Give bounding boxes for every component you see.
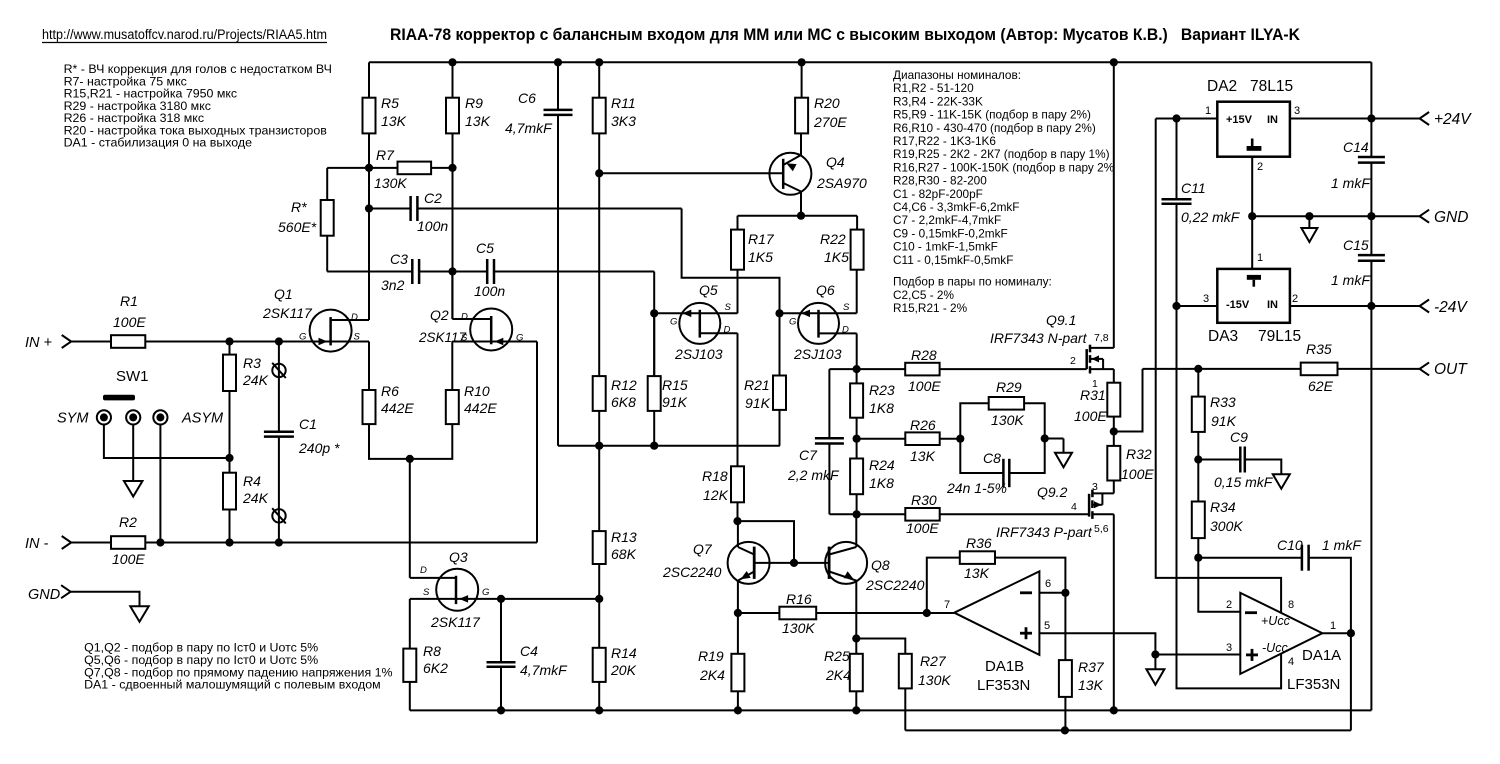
svg-text:13K: 13K <box>1078 677 1104 693</box>
wire R3/R4 column <box>229 342 231 355</box>
wire pin5 node ground stub <box>1154 655 1156 670</box>
node R37 bottom <box>1061 726 1069 734</box>
svg-text:6K2: 6K2 <box>423 660 448 676</box>
svg-text:R22: R22 <box>820 231 846 247</box>
resistor R25 <box>850 654 863 692</box>
ground arrow at pin5 node <box>1146 669 1164 685</box>
svg-text:R14: R14 <box>611 645 637 661</box>
svg-text:D: D <box>351 312 358 323</box>
resistor R14 <box>593 648 606 682</box>
wire C9 branch <box>1198 459 1240 461</box>
resistor R15 <box>648 376 661 411</box>
svg-text:-24V: -24V <box>1434 299 1468 316</box>
svg-text:-Ucc: -Ucc <box>1262 641 1288 655</box>
svg-text:IRF7343 N-part: IRF7343 N-part <box>990 330 1088 346</box>
svg-text:R27: R27 <box>920 653 947 669</box>
svg-text:68K: 68K <box>611 546 637 562</box>
resistor R7 <box>369 167 398 169</box>
svg-text:24K: 24K <box>242 490 269 506</box>
capacitor C10 <box>1301 545 1304 571</box>
svg-text:R17,R22 - 1K3-1K6: R17,R22 - 1K3-1K6 <box>893 134 996 148</box>
svg-text:5,6: 5,6 <box>1094 523 1109 535</box>
svg-text:R21: R21 <box>744 377 770 393</box>
resistor R24 <box>850 459 863 495</box>
wire DA3 pin1 to GND line <box>1251 216 1253 269</box>
svg-text:13K: 13K <box>910 448 936 464</box>
transistor Q7 2SC2240 <box>728 542 770 584</box>
wire C3-C5 <box>419 271 487 273</box>
wire to DA1A pin3 <box>1155 654 1240 656</box>
wire feedback line to DA1A output <box>905 729 1351 731</box>
svg-text:G: G <box>789 317 796 328</box>
wire IN+ line <box>71 341 111 343</box>
wire to base line <box>738 521 795 563</box>
svg-text:270E: 270E <box>813 114 847 130</box>
svg-text:R4: R4 <box>243 473 261 489</box>
capacitor C5 <box>486 259 489 284</box>
wire Q9.2 drain to bottom rail <box>1113 514 1115 710</box>
svg-text:2SJ103: 2SJ103 <box>793 346 842 362</box>
svg-text:2: 2 <box>1292 293 1298 305</box>
op-amp DA1A LF353N <box>1240 593 1322 674</box>
wire OUT line <box>1143 368 1301 370</box>
node pin5/pin3/ground <box>1151 650 1159 658</box>
node GND arrow tap <box>1305 212 1313 220</box>
wire R17 lead <box>737 216 739 230</box>
wire DA2 pin1 line <box>1156 118 1218 120</box>
resistor R20 <box>795 98 808 134</box>
transistor Q9.1 IRF7343 N-part <box>1085 349 1088 369</box>
svg-text:5: 5 <box>1044 620 1050 632</box>
wire R34 leads <box>1197 460 1199 502</box>
svg-text:R11: R11 <box>611 95 636 111</box>
resistor R16 <box>779 607 816 620</box>
wire R37 leads <box>1064 593 1066 660</box>
capacitor C14 <box>1358 156 1385 159</box>
wire Q6 source to R22 <box>819 312 857 314</box>
node rail/R19 <box>734 706 742 714</box>
svg-text:C14: C14 <box>1343 139 1369 155</box>
svg-text:GND: GND <box>28 587 60 603</box>
svg-text:C11 - 0,15mkF-0,5mkF: C11 - 0,15mkF-0,5mkF <box>893 253 1013 267</box>
node output R31/R32 <box>1110 427 1118 435</box>
svg-text:7,8: 7,8 <box>1094 332 1109 344</box>
wire R19 leads <box>737 613 739 654</box>
svg-text:2SK117: 2SK117 <box>418 330 467 345</box>
resistor R10 <box>446 390 459 424</box>
svg-text:91K: 91K <box>1211 413 1237 429</box>
svg-text:2SK117: 2SK117 <box>430 614 481 630</box>
svg-text:100E: 100E <box>906 520 939 536</box>
svg-text:300K: 300K <box>1210 518 1243 534</box>
node Q4 collector <box>797 212 805 220</box>
svg-text:2SJ103: 2SJ103 <box>674 346 723 362</box>
resistor R28 <box>905 363 939 376</box>
transistor Q4 2SA970 <box>800 133 802 155</box>
wire R26 line <box>857 438 906 440</box>
resistor R32 <box>1107 446 1120 481</box>
svg-text:C2: C2 <box>424 190 442 206</box>
wire Q3 drain column <box>409 459 411 578</box>
svg-text:62E: 62E <box>1308 378 1334 394</box>
svg-text:13K: 13K <box>964 565 990 581</box>
ground arrow at R29/C8 <box>1055 453 1072 468</box>
wire R21 to tail <box>779 410 781 446</box>
resistor R26 <box>905 432 939 445</box>
node rail/C6 <box>554 58 562 66</box>
svg-text:Q3: Q3 <box>449 549 468 565</box>
svg-text:4: 4 <box>1288 656 1294 668</box>
wire GND line <box>1252 215 1419 217</box>
connector GND <box>1420 210 1430 223</box>
svg-text:http://www.musatoffcv.narod.ru: http://www.musatoffcv.narod.ru/Projects/… <box>42 27 327 42</box>
svg-text:R35: R35 <box>1306 341 1332 357</box>
svg-text:R36: R36 <box>966 535 992 551</box>
svg-text:R34: R34 <box>1210 499 1236 515</box>
switch SW1 pin ASYM <box>153 410 167 424</box>
svg-text:R13: R13 <box>611 529 637 545</box>
node GND/C14 <box>1367 212 1375 220</box>
svg-text:IRF7343 P-part: IRF7343 P-part <box>996 524 1093 540</box>
node R3/R4 <box>225 454 233 462</box>
svg-text:G: G <box>670 317 677 328</box>
wire R18 bottom to Q7 collector <box>737 502 739 521</box>
svg-text:SYM: SYM <box>57 411 89 427</box>
resistor R1 <box>111 335 145 348</box>
wire Q3 source to R8 <box>410 598 456 600</box>
wire R32 leads <box>1113 432 1115 446</box>
node pin6/R36/R37 <box>1061 589 1069 597</box>
wire DA2 pin3 line <box>1290 118 1420 120</box>
wire R13-R14 <box>598 564 600 648</box>
svg-text:G: G <box>299 332 306 343</box>
node C9 <box>1194 455 1202 463</box>
wire R28 line to Q9.1 gate <box>857 368 906 370</box>
svg-text:130K: 130K <box>782 620 815 636</box>
svg-text:1: 1 <box>1205 105 1211 117</box>
svg-text:91K: 91K <box>745 395 771 411</box>
wire DA2 pin2 to GND line <box>1251 157 1253 217</box>
wire Q9.1 source to R31 <box>1113 369 1115 383</box>
wire DA1A output <box>1322 632 1351 634</box>
svg-text:LF353N: LF353N <box>977 677 1030 694</box>
resistor R19 <box>731 654 744 692</box>
svg-text:4,7mkF: 4,7mkF <box>505 120 553 136</box>
wire C8 loop <box>960 439 1003 473</box>
resistor R31 <box>1107 383 1120 417</box>
wire R* branch <box>327 167 369 169</box>
wire C10 line <box>1198 557 1302 559</box>
svg-text:78L15: 78L15 <box>1250 78 1293 95</box>
svg-text:R16,R27 - 100K-150K (подбор в: R16,R27 - 100K-150K (подбор в пару 2% <box>893 160 1115 174</box>
svg-text:R5: R5 <box>381 95 399 111</box>
wire GND stub <box>71 592 140 607</box>
svg-text:GND: GND <box>1434 209 1468 226</box>
wire Q6 drain down <box>819 332 857 334</box>
resistor R* <box>321 200 334 236</box>
wire GND arrow stub <box>1308 216 1310 228</box>
wire R5 column <box>368 62 370 97</box>
svg-text:100n: 100n <box>417 218 448 234</box>
svg-text:R15,R21 - 2%: R15,R21 - 2% <box>893 301 968 315</box>
resistor R33 <box>1192 397 1205 432</box>
wire -15V to DA1A pin4 <box>1177 306 1282 688</box>
svg-text:S: S <box>725 302 732 313</box>
svg-text:24n 1-5%: 24n 1-5% <box>946 480 1007 496</box>
svg-text:Q4: Q4 <box>826 154 845 170</box>
svg-text:R28: R28 <box>911 347 937 363</box>
wire +15V to DA1A pin8 <box>1156 119 1281 613</box>
svg-text:DA1 - сдвоенный малошумящий с: DA1 - сдвоенный малошумящий с полевым вх… <box>84 678 381 692</box>
svg-text:R33: R33 <box>1210 394 1236 410</box>
resistor R18 <box>731 466 744 502</box>
node R18/Q7 collector <box>733 517 741 525</box>
resistor R23 <box>850 383 863 417</box>
resistor R30 <box>905 508 939 521</box>
svg-text:R1: R1 <box>120 293 138 309</box>
svg-text:100E: 100E <box>113 314 146 330</box>
svg-text:R2: R2 <box>119 514 137 530</box>
node OUT/R33 <box>1194 365 1202 373</box>
svg-text:130K: 130K <box>918 672 951 688</box>
svg-text:1: 1 <box>1330 620 1336 632</box>
node tail/R12 <box>595 442 603 450</box>
node R29/C8 left <box>956 435 964 443</box>
node rail/R25 <box>852 706 860 714</box>
svg-text:1 mkF: 1 mkF <box>1331 175 1371 191</box>
svg-text:SW1: SW1 <box>116 368 149 385</box>
svg-text:C7 - 2,2mkF-4,7mkF: C7 - 2,2mkF-4,7mkF <box>893 213 1001 227</box>
svg-text:1 mkF: 1 mkF <box>1322 537 1362 553</box>
svg-text:DA1B: DA1B <box>985 658 1024 675</box>
svg-text:6: 6 <box>1045 578 1051 590</box>
wire R14 to bottom rail <box>598 682 600 711</box>
svg-text:ASYM: ASYM <box>181 411 224 427</box>
node tail/R15 <box>650 442 658 450</box>
node DA1A out / C10 / feedback <box>1347 629 1355 637</box>
wire R23-R24 <box>856 418 858 439</box>
node R6/R10 junction <box>406 455 414 463</box>
wire to ground arrow <box>1045 438 1064 440</box>
capacitor C11 <box>1162 198 1192 201</box>
wire R23 lead <box>856 369 858 383</box>
svg-text:R18: R18 <box>702 468 728 484</box>
svg-text:R3,R4 - 22K-33K: R3,R4 - 22K-33K <box>893 94 983 108</box>
svg-text:7: 7 <box>944 599 950 611</box>
svg-text:2SC2240: 2SC2240 <box>865 577 925 593</box>
svg-text:R5,R9 - 11K-15K (подбор в пару: R5,R9 - 11K-15K (подбор в пару 2%) <box>893 108 1091 122</box>
svg-text:100n: 100n <box>474 283 505 299</box>
svg-text:3: 3 <box>1294 105 1300 117</box>
wire DA1B pin6 <box>1039 592 1065 594</box>
resistor R8 <box>403 649 416 682</box>
wire Q2 source to R10 <box>452 341 491 343</box>
svg-text:24K: 24K <box>242 372 269 388</box>
wire R27 branch <box>856 639 905 654</box>
svg-text:R24: R24 <box>869 457 895 473</box>
svg-text:2: 2 <box>1257 161 1263 173</box>
wire R29 loop <box>960 403 988 438</box>
wire R15 column <box>653 313 655 376</box>
svg-text:R29: R29 <box>996 379 1022 395</box>
node R29/C8 right <box>1041 434 1049 442</box>
svg-text:13K: 13K <box>381 113 407 129</box>
transistor Q5 2SJ103 <box>679 303 720 344</box>
svg-text:8: 8 <box>1288 599 1294 611</box>
svg-text:D: D <box>420 565 427 576</box>
node IN- / C1 <box>275 538 283 546</box>
node R26 junction <box>853 435 861 443</box>
node Q6 drain junction <box>853 365 861 373</box>
resistor R6 <box>363 390 376 424</box>
svg-text:R30: R30 <box>911 492 937 508</box>
wire DA3 pin3 line <box>1177 305 1218 307</box>
svg-text:C6: C6 <box>518 90 536 106</box>
svg-text:C4,C6 - 3,3mkF-6,2mkF: C4,C6 - 3,3mkF-6,2mkF <box>893 200 1020 214</box>
wire C5 to Q5 gate <box>494 271 654 273</box>
svg-text:R16: R16 <box>786 591 812 607</box>
capacitor C2 <box>409 196 412 221</box>
ground arrow at C9 <box>1273 474 1290 489</box>
wire DA3 pin2 line <box>1290 305 1420 307</box>
resistor R4 <box>223 473 236 510</box>
wire output node to OUT line <box>1114 369 1143 432</box>
wire C7 bottom lead <box>828 444 830 515</box>
node rail/Q9.2 <box>1110 706 1118 714</box>
svg-text:DA1 - стабилизация 0 на выходе: DA1 - стабилизация 0 на выходе <box>64 136 253 150</box>
wire DA1B pin5 line <box>1039 633 1155 654</box>
wire SYM pin to R3/R4 node <box>104 425 230 459</box>
node rail/C4 <box>497 706 505 714</box>
wire R36 loop <box>995 558 1065 593</box>
svg-text:R19: R19 <box>698 648 724 664</box>
regulator DA2 78L15 <box>1217 102 1290 157</box>
svg-text:R17: R17 <box>748 231 775 247</box>
node -24V <box>1367 302 1375 310</box>
svg-text:Q8: Q8 <box>871 557 890 573</box>
wire R17 to Q5 source <box>737 270 739 314</box>
svg-text:91K: 91K <box>662 394 688 410</box>
svg-text:R15: R15 <box>662 377 688 393</box>
wire Q3 gate line <box>456 598 599 600</box>
svg-text:3: 3 <box>1203 293 1209 305</box>
svg-text:R10: R10 <box>464 383 490 399</box>
wire C11 column <box>1176 119 1178 200</box>
node rail/R14 <box>595 706 603 714</box>
svg-text:79L15: 79L15 <box>1258 328 1301 345</box>
node DA2 pin1 / C11 <box>1172 114 1180 122</box>
svg-text:IN +: IN + <box>25 335 52 351</box>
svg-text:IN -: IN - <box>25 536 49 552</box>
connector +24V <box>1420 112 1430 125</box>
svg-text:R12: R12 <box>611 377 637 393</box>
svg-text:1K5: 1K5 <box>824 249 849 265</box>
svg-text:100E: 100E <box>1074 408 1107 424</box>
svg-text:2: 2 <box>1070 355 1076 367</box>
regulator DA3 79L15 <box>1217 269 1290 323</box>
wire R30 line to Q9.2 gate <box>857 513 906 515</box>
wire R20 column <box>801 62 803 97</box>
wire R33-C9 node <box>1197 432 1199 460</box>
svg-text:C1: C1 <box>299 416 317 432</box>
wire Q9.1 drain column <box>1113 62 1115 348</box>
svg-text:R3: R3 <box>243 355 261 371</box>
node C10 <box>1194 554 1202 562</box>
wire DA1B output <box>927 612 955 614</box>
capacitor C6 <box>544 109 573 112</box>
resistor R3 <box>223 355 236 391</box>
svg-text:DA1A: DA1A <box>1302 647 1341 664</box>
wire DA1A pin2 line <box>1198 558 1240 612</box>
svg-text:C5: C5 <box>476 240 494 256</box>
svg-text:100E: 100E <box>1121 466 1154 482</box>
resistor R29 <box>989 397 1024 410</box>
op-amp DA1B LF353N <box>954 571 1039 655</box>
wire +24V top rail <box>369 61 1371 63</box>
capacitor C9 <box>1239 447 1242 473</box>
svg-text:560E*: 560E* <box>278 219 317 235</box>
svg-text:3: 3 <box>1092 481 1098 493</box>
wire R27 to feedback line <box>904 688 906 730</box>
node rail/Q9.1 <box>1110 58 1118 66</box>
wire ASYM pin to IN- line <box>159 425 161 543</box>
ground arrow at GND input <box>130 606 149 622</box>
svg-text:4: 4 <box>1071 501 1077 513</box>
svg-text:R9: R9 <box>465 95 483 111</box>
svg-text:DA3: DA3 <box>1208 328 1238 345</box>
svg-text:Q5: Q5 <box>699 282 718 298</box>
switch SW1 bar <box>103 395 135 401</box>
svg-text:442E: 442E <box>464 400 497 416</box>
transistor Q3 2SK117 <box>436 569 478 611</box>
svg-text:1K5: 1K5 <box>748 249 773 265</box>
svg-text:C15: C15 <box>1343 237 1369 253</box>
no-connect symbol lower <box>272 509 285 522</box>
svg-text:R6: R6 <box>381 383 399 399</box>
wire C1 column <box>278 342 280 432</box>
resistor R21 <box>773 376 786 410</box>
node R7 left <box>365 164 373 172</box>
wire R9 column <box>452 62 454 97</box>
ground arrow below SW1 <box>124 481 143 497</box>
svg-text:IN: IN <box>1267 299 1278 311</box>
node IN- / ASYM <box>156 538 164 546</box>
svg-text:20K: 20K <box>610 662 637 678</box>
wire C7 top lead <box>829 368 856 370</box>
resistor R37 <box>1059 660 1072 697</box>
wire Q4 collector line <box>738 215 858 217</box>
resistor R17 <box>731 230 744 270</box>
node rail/R20 <box>798 58 806 66</box>
wire R16 line <box>738 612 780 614</box>
wire R24 leads <box>856 439 858 459</box>
svg-text:Q6: Q6 <box>816 282 835 298</box>
svg-text:C10: C10 <box>1277 537 1303 553</box>
svg-text:240p *: 240p * <box>298 440 340 456</box>
capacitor C1 <box>264 431 294 434</box>
switch SW1 pin SYM <box>97 410 111 424</box>
svg-text:G: G <box>516 333 523 344</box>
node IN+ / C1 <box>275 337 283 345</box>
svg-text:C2,C5 - 2%: C2,C5 - 2% <box>893 288 954 302</box>
svg-text:R8: R8 <box>423 643 441 659</box>
svg-text:2SA970: 2SA970 <box>816 175 867 191</box>
svg-text:R31: R31 <box>1080 387 1106 403</box>
wire middle pin to arrow <box>132 425 134 482</box>
svg-text:R6,R10 - 430-470 (подбор в пар: R6,R10 - 430-470 (подбор в пару 2%) <box>893 121 1096 135</box>
wire Q2 gate from IN- <box>536 342 538 543</box>
resistor R27 <box>899 654 912 689</box>
